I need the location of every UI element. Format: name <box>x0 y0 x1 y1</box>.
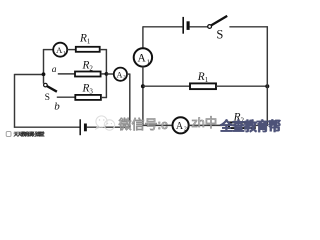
wire: far-left vertical <box>14 74 16 128</box>
wire: R2 to right vertical <box>101 73 107 75</box>
svg-text:b: b <box>54 100 60 112</box>
svg-text:2: 2 <box>184 127 187 133</box>
wire: row a to R2 <box>58 73 75 75</box>
svg-text:A: A <box>117 70 123 79</box>
wire: middle row left segment <box>143 85 190 87</box>
wire: top side right segment <box>229 26 268 28</box>
resistor R2 (right circuit) <box>229 122 255 128</box>
svg-text:A: A <box>137 53 146 65</box>
ammeter A2 (left circuit) <box>114 68 127 81</box>
ammeter A2 (right circuit) <box>173 117 189 133</box>
svg-text:全查教育帮: 全查教育帮 <box>221 118 281 133</box>
watermark bottom-left text <box>13 131 44 138</box>
resistor R3 (left circuit) <box>75 95 101 100</box>
svg-text:天天教育满分课堂: 天天教育满分课堂 <box>14 131 45 138</box>
watermark blue text <box>220 118 281 133</box>
wire: top side battery to switch <box>189 26 207 28</box>
wire: right vertical joining R1 R2 R3 <box>105 49 107 98</box>
resistor R2 (left circuit) <box>75 72 101 77</box>
wire: riser from bottom to ammeter A2 branch <box>129 74 131 128</box>
ammeter A1 (left circuit) <box>53 43 67 57</box>
switch S pivot (left circuit) <box>44 83 48 87</box>
switch S blade (left circuit) <box>47 86 57 92</box>
svg-text:1: 1 <box>147 59 150 66</box>
wire: bottom row left segment <box>142 124 172 126</box>
switch S blade (right circuit) <box>211 16 227 25</box>
wire: far-left branch horizontal <box>15 74 44 76</box>
resistor R1 (right circuit) <box>190 83 216 89</box>
wire: left edge above A1 <box>142 26 144 48</box>
resistor R1 (left circuit) <box>76 47 100 52</box>
wire: R3 to right vertical <box>101 97 107 99</box>
watermark wechat logo <box>96 116 115 130</box>
wire: left vertical (top corner to switch) <box>43 49 45 84</box>
wire: top row left segment <box>43 49 53 51</box>
node: left junction of middle row <box>141 84 145 88</box>
wire: junction to ammeter A2 <box>106 73 114 75</box>
wire: row b to R3 <box>57 96 76 98</box>
battery B2 (right circuit) <box>183 17 188 34</box>
wire: right edge <box>266 26 268 126</box>
svg-text:微信号:c: 微信号:c <box>119 117 169 132</box>
ammeter A1 (right circuit) <box>134 48 152 66</box>
svg-text:zh中: zh中 <box>192 115 218 130</box>
watermark bottom-left icon <box>6 132 11 137</box>
wire: bottom left of battery <box>14 126 80 128</box>
wire: A2 to riser <box>127 73 131 75</box>
node: right junction of middle row <box>265 84 269 88</box>
switch S pivot (right circuit) <box>208 25 212 29</box>
svg-text:A: A <box>176 121 184 132</box>
wire: left edge below A1 <box>142 66 144 126</box>
svg-text:S: S <box>216 28 223 42</box>
wire: bottom right of battery <box>87 126 131 128</box>
svg-text:1: 1 <box>63 50 66 56</box>
wire: top row right segment <box>100 49 107 51</box>
svg-text:a: a <box>52 65 57 75</box>
wire: middle row right segment <box>216 85 267 87</box>
wire: top side left segment <box>143 26 183 28</box>
wire: top row between A1 and R1 <box>67 49 76 51</box>
node: junction right vertical / A2 branch <box>105 72 109 76</box>
node: junction of far-left branch <box>42 72 46 76</box>
wire: bottom row A2 to R2 <box>189 124 230 126</box>
battery B1 (left circuit) <box>80 119 85 135</box>
wire: bottom row right segment <box>255 124 268 126</box>
svg-text:S: S <box>45 92 50 103</box>
